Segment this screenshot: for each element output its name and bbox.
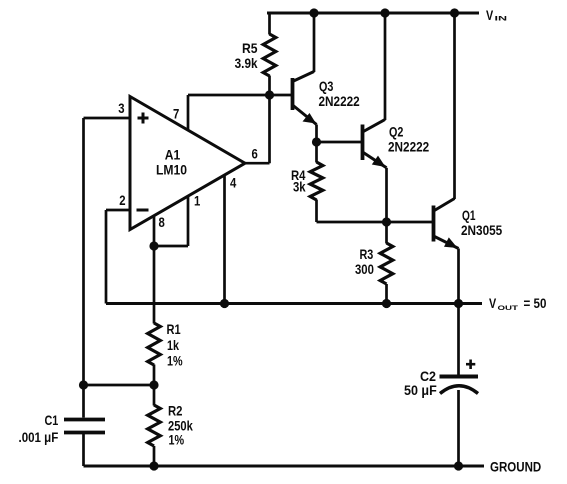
wire: pin 8 to pin 1 link bbox=[154, 245, 188, 248]
svg-text:R5: R5 bbox=[242, 40, 258, 56]
svg-text:300: 300 bbox=[355, 262, 374, 277]
resistor R5 3.9k bbox=[235, 13, 276, 95]
svg-text:3k: 3k bbox=[293, 180, 306, 195]
op-amp U1 A1 LM10 triangle bbox=[130, 97, 245, 230]
svg-text:7: 7 bbox=[173, 107, 179, 122]
svg-text:1%: 1% bbox=[167, 353, 183, 368]
node: pin4 / VOUT junction bbox=[220, 299, 229, 308]
node: R3 / VOUT junction bbox=[382, 299, 391, 308]
transistor Q2 2N2222 bbox=[363, 13, 430, 222]
net label V_OUT = 50 bbox=[489, 296, 546, 312]
node: Q3 emitter / R4 / Q2 base junction bbox=[312, 137, 321, 146]
svg-text:50 μF: 50 μF bbox=[404, 383, 437, 399]
node: Q1 emitter / C2 / VOUT junction bbox=[454, 299, 463, 308]
node: R5 / pin7 / pin6 / Q3 base junction bbox=[265, 90, 274, 99]
node: R1 / R2 junction bbox=[149, 380, 158, 389]
node: C2 / ground junction bbox=[454, 461, 463, 470]
svg-text:2N2222: 2N2222 bbox=[319, 94, 360, 109]
wire: R4 bottom rail to Q1 base bbox=[317, 221, 434, 224]
node: Q2 emitter / R3 / Q1 base junction bbox=[382, 217, 391, 226]
transistor Q1 2N3055 bbox=[434, 13, 503, 304]
resistor R3 300 bbox=[355, 222, 393, 304]
svg-text:V: V bbox=[486, 8, 494, 23]
svg-text:1: 1 bbox=[194, 194, 200, 209]
svg-text:R3: R3 bbox=[360, 247, 374, 262]
wire: pin 6 output stub bbox=[244, 162, 270, 165]
capacitor C2 50uF polarized bbox=[404, 304, 478, 467]
svg-text:= 50: = 50 bbox=[524, 296, 547, 311]
svg-text:R1: R1 bbox=[167, 322, 181, 337]
svg-text:8: 8 bbox=[159, 215, 165, 230]
svg-text:Q3: Q3 bbox=[319, 79, 334, 94]
svg-text:1k: 1k bbox=[167, 338, 179, 353]
node: top rail / Q1 collector bbox=[450, 8, 459, 17]
svg-text:3: 3 bbox=[118, 101, 124, 116]
node: R2 / ground junction bbox=[149, 461, 158, 470]
svg-text:1%: 1% bbox=[169, 432, 185, 447]
svg-text:LM10: LM10 bbox=[156, 162, 187, 178]
wire: pin 2 horizontal bbox=[106, 209, 130, 212]
op-amp minus input symbol bbox=[137, 209, 149, 212]
node: top rail / Q2 collector bbox=[380, 8, 389, 17]
wire: Q2 base wire bbox=[317, 141, 363, 144]
svg-text:2: 2 bbox=[119, 193, 125, 208]
svg-text:V: V bbox=[489, 296, 497, 311]
wire: pin 3 vertical down to divider node bbox=[82, 118, 85, 385]
svg-text:C1: C1 bbox=[45, 413, 59, 428]
svg-text:2N3055: 2N3055 bbox=[461, 223, 502, 238]
svg-text:4: 4 bbox=[230, 176, 236, 191]
svg-text:6: 6 bbox=[252, 147, 258, 162]
wire: pin 3 horizontal bbox=[84, 117, 131, 120]
capacitor C1 .001uF bbox=[19, 385, 106, 466]
node: pin8 / pin1 / R1 junction bbox=[149, 241, 158, 250]
svg-text:GROUND: GROUND bbox=[490, 460, 541, 475]
wire: divider node horizontal bbox=[84, 384, 155, 387]
svg-text:IN: IN bbox=[495, 15, 508, 22]
wire: ground line bbox=[84, 465, 485, 468]
resistor R1 1k 1% bbox=[148, 246, 183, 385]
wire: pin 6 vertical up to R5 junction bbox=[268, 95, 271, 163]
wire: VOUT horizontal line bbox=[106, 302, 482, 305]
wire: pin 8 vertical bbox=[153, 216, 156, 247]
resistor R2 250k 1% bbox=[148, 385, 193, 466]
node: top rail / Q3 collector bbox=[309, 8, 318, 17]
svg-text:2N2222: 2N2222 bbox=[388, 140, 429, 155]
wire: pin 7 horizontal over to Q3 base bbox=[188, 94, 292, 97]
svg-text:Q2: Q2 bbox=[389, 124, 404, 139]
wire: pin 1 vertical bbox=[187, 196, 190, 246]
net label V_IN bbox=[486, 8, 507, 23]
node: pin3 / C1 junction bbox=[79, 380, 88, 389]
resistor R4 3k bbox=[291, 142, 323, 222]
svg-text:A1: A1 bbox=[165, 147, 181, 163]
wire: pin 7 vertical bbox=[187, 95, 190, 131]
wire: pin 2 vertical down to Vout line bbox=[105, 210, 108, 304]
svg-text:R2: R2 bbox=[168, 404, 183, 419]
op-amp plus input symbol bbox=[138, 113, 149, 124]
svg-text:OUT: OUT bbox=[498, 305, 519, 312]
transistor Q3 2N2222 bbox=[293, 13, 360, 142]
wire: pin 4 vertical down to Vout line bbox=[223, 175, 226, 304]
svg-text:Q1: Q1 bbox=[462, 208, 476, 224]
wire: V_IN top rail bbox=[267, 12, 479, 15]
svg-text:.001 μF: .001 μF bbox=[19, 430, 59, 445]
svg-text:3.9k: 3.9k bbox=[235, 56, 259, 71]
